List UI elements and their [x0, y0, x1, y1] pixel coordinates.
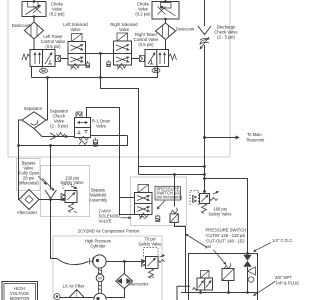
desiccant right [156, 23, 176, 40]
svg-text:Safety Valve: Safety Valve [138, 242, 162, 247]
svg-text:(0.2 psi): (0.2 psi) [135, 12, 151, 17]
pressure switch 102 symbol [170, 208, 178, 223]
wire: switch3 drop [228, 281, 230, 293]
high pressure cylinder [90, 255, 107, 268]
leader: npt label [254, 282, 276, 296]
svg-text:Safety Valve: Safety Valve [208, 212, 232, 217]
wire: separator left line down to aftercooler [19, 120, 23, 200]
svg-text:(2 - 5 psi): (2 - 5 psi) [217, 35, 235, 40]
svg-text:psi: psi [206, 244, 211, 249]
pilot connector right [56, 56, 61, 62]
svg-text:2CY2MD Air Compressor Portion: 2CY2MD Air Compressor Portion [78, 229, 140, 234]
leader: coc label [254, 243, 272, 252]
intercooler [116, 274, 133, 289]
piston rod upper [98, 268, 101, 275]
exhaust ellipse [154, 67, 156, 69]
70 psi safety valve [142, 248, 165, 279]
wire: right choke to desiccant [165, 19, 167, 23]
spring box top [76, 112, 82, 118]
wire: HP cylinder discharge [106, 261, 143, 263]
governor pressure switch [222, 263, 234, 281]
wire: unloader drop [51, 200, 58, 259]
svg-text:Desiccant: Desiccant [176, 27, 195, 32]
right solenoid valve [107, 33, 132, 70]
svg-text:Desiccant: Desiccant [12, 23, 31, 28]
leader: pressure switch cutin to governor switch [214, 250, 227, 265]
right tower control valve [140, 50, 177, 73]
svg-text:(0.2 psi): (0.2 psi) [49, 12, 65, 17]
spring below [117, 64, 126, 70]
LP cylinder [94, 293, 106, 300]
svg-text:Cylinder: Cylinder [90, 244, 106, 249]
separator check valve [50, 133, 65, 141]
svg-text:TAP & PLUG: TAP & PLUG [275, 281, 299, 286]
wire: right desiccant to right tower valve [165, 40, 167, 50]
piston rod lower [98, 282, 101, 293]
choke valve left [22, 2, 46, 17]
left solenoid valve [68, 34, 90, 70]
governor solenoid valve [193, 271, 213, 291]
wire: manifold branch y174.5 [139, 174, 205, 176]
wire: right choke stub [165, 0, 167, 2]
svg-text:LX Air Filter: LX Air Filter [63, 283, 85, 288]
wire: left choke to desiccant [33, 17, 35, 23]
COC shutoff valve [243, 255, 251, 267]
wire: left choke stub [33, 0, 35, 2]
governor box [189, 254, 258, 300]
wire: bypass valve drop [50, 146, 52, 190]
svg-text:MONITOR: MONITOR [10, 296, 30, 300]
160 psi safety valve [190, 191, 219, 214]
pressure switch gray box [131, 177, 187, 226]
spring below [71, 64, 80, 70]
wire: right pilot line [132, 58, 140, 60]
spring W right [169, 54, 177, 60]
pilot connector left [140, 56, 145, 62]
svg-text:Reservoir: Reservoir [247, 138, 266, 143]
leader: pressure switch cutin to manifold [186, 234, 208, 248]
wire: solenoid crossover y53.5 [86, 53, 114, 55]
wire: discharge line lower [204, 45, 206, 192]
desiccant left [25, 22, 44, 39]
wire: left pilot line [61, 58, 69, 60]
svg-text:3/8" NPT: 3/8" NPT [275, 275, 292, 280]
drain pot [95, 138, 97, 141]
choke valve right [152, 2, 179, 20]
wire: separator feed [46, 78, 48, 121]
svg-text:'CUTIN' 128 - 133 psi: 'CUTIN' 128 - 133 psi [206, 233, 246, 238]
wire: dryer main line y77 [32, 67, 158, 78]
drain cock [248, 267, 256, 282]
svg-text:PRESSURE SWITCH: PRESSURE SWITCH [206, 228, 247, 233]
leader: 2-way solenoid label [121, 217, 132, 219]
svg-text:Assembly: Assembly [89, 198, 108, 203]
svg-text:M: M [98, 276, 102, 281]
bypass valve symbol [38, 176, 56, 199]
svg-text:Safety Valve: Safety Valve [60, 180, 84, 185]
leader: pressure switch 102 box [157, 201, 165, 210]
svg-text:(2 - 5 psi): (2 - 5 psi) [50, 124, 68, 129]
exhaust pot left [108, 61, 110, 63]
wire: R-1 outlet line [91, 135, 128, 137]
wire: manifold branch y166 [139, 166, 205, 168]
compressor enclosure (gray) [53, 236, 162, 300]
svg-text:psi increasing: psi increasing [157, 195, 183, 200]
wire: branch to final check line [205, 179, 248, 255]
LX air filter [54, 290, 94, 300]
wire: governor bottom line [181, 292, 258, 294]
exhaust pot right [87, 61, 89, 63]
wire: unloader curve [57, 259, 89, 265]
bypass valve note box (gray) [17, 159, 41, 191]
pressure switch 102 label box [155, 186, 181, 200]
svg-text:differential): differential) [18, 181, 39, 186]
wire: solenoid3 drop [200, 290, 202, 293]
wire: to main reservoir line [205, 137, 240, 139]
svg-text:Separator: Separator [24, 106, 43, 111]
svg-text:Valve: Valve [119, 27, 130, 32]
svg-text:(0.5 psi): (0.5 psi) [138, 42, 154, 47]
svg-text:Aftercooler: Aftercooler [17, 210, 38, 215]
spring W left [22, 54, 30, 60]
wire: solenoid 2way side tap [120, 197, 135, 199]
wire: intercooler top link [124, 262, 126, 274]
wire: R-1 pilot line [87, 108, 135, 215]
wire: left tower valve to main line [31, 67, 33, 78]
svg-text:Intercooler: Intercooler [129, 282, 149, 287]
wire: left desiccant to left tower valve [33, 39, 35, 50]
high voltage monitor box [2, 282, 38, 300]
discharge check valve symbol [198, 26, 211, 49]
svg-text:'CUT-OUT' 148 - 152: 'CUT-OUT' 148 - 152 [206, 239, 246, 244]
wire: switch output to governor [175, 223, 186, 293]
aftercooler [19, 190, 39, 210]
junction dots [33, 0, 36, 3]
svg-text:To Main: To Main [247, 132, 262, 137]
wire: center drop to manifold [101, 54, 139, 175]
R-1 drain valve [75, 112, 98, 146]
wire: discharge line upper [204, 0, 206, 26]
muffler sub-box [177, 286, 190, 300]
wire: pressure switch 102 drop [174, 175, 176, 207]
bypass manifold gray box [41, 166, 90, 217]
wire: coc drop [247, 267, 249, 293]
svg-text:Valve: Valve [70, 27, 81, 32]
motor M [96, 274, 104, 282]
svg-text:Valve: Valve [96, 124, 107, 129]
exhaust ellipse [41, 67, 43, 69]
wire: intercooler bottom link [106, 289, 124, 298]
separator [22, 112, 46, 129]
air dryer enclosure (gray) [8, 0, 230, 157]
wire: aftercooler outlet y200 [39, 199, 64, 201]
wire: drain line y145 [19, 136, 128, 146]
2-way solenoid valve [135, 185, 160, 222]
left tower control valve [22, 50, 61, 74]
svg-text:(0.5 psi): (0.5 psi) [45, 44, 61, 49]
220 psi safety valve [61, 185, 77, 214]
wire: separator to check valve [34, 129, 75, 137]
svg-text:1/4" C.O.C.: 1/4" C.O.C. [272, 238, 293, 243]
svg-text:VALVE: VALVE [99, 219, 112, 224]
flex hose squiggle [200, 38, 209, 44]
